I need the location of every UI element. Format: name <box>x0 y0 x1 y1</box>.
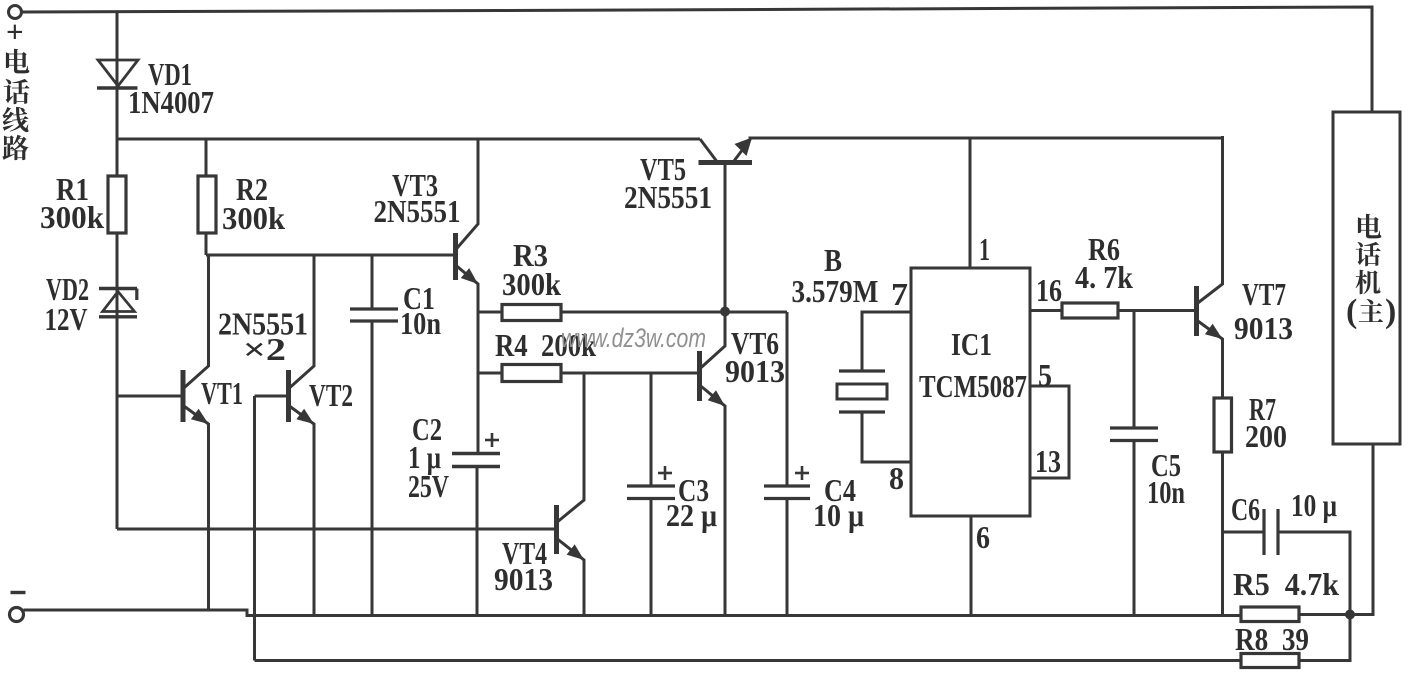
wire bottom rail <box>24 610 1242 616</box>
svg-text:9013: 9013 <box>494 561 553 597</box>
svg-text:300k: 300k <box>222 200 285 236</box>
svg-text:2N5551: 2N5551 <box>374 193 461 229</box>
wire R2 bottom <box>205 233 208 255</box>
capacitor C4 <box>764 484 810 487</box>
wire C4 bottom <box>786 499 789 616</box>
label 路 <box>2 135 28 160</box>
transistor VT5 emitter arrow <box>735 138 753 157</box>
svg-text:1N4007: 1N4007 <box>128 84 214 120</box>
transistor VT2 emitter <box>289 405 315 615</box>
capacitor C3 <box>627 484 675 487</box>
svg-text:12V: 12V <box>45 301 88 337</box>
svg-text:6: 6 <box>976 519 990 555</box>
wire crystal top <box>862 312 911 371</box>
svg-text:22 μ: 22 μ <box>666 497 717 533</box>
svg-text:13: 13 <box>1035 443 1061 479</box>
transistor VT6 bar <box>697 351 702 401</box>
transistor VT7 bar <box>1194 286 1199 336</box>
resistor R3 <box>502 305 561 321</box>
wire R8 rail <box>255 659 1242 662</box>
transistor VT4 emitter arrow <box>567 544 584 560</box>
transistor VT1 bar <box>181 370 186 422</box>
transistor VT5 emitter <box>734 139 751 161</box>
wire R6 right <box>1118 309 1195 312</box>
transistor VT1 collector <box>183 255 209 389</box>
ic U1 IC1 box <box>911 268 1030 516</box>
svg-text:R5 4.7k: R5 4.7k <box>1233 566 1339 602</box>
wire C1 top <box>371 255 374 309</box>
terminal + (top-left) <box>9 6 22 19</box>
wire C3 top <box>650 372 653 486</box>
wire pin 1 <box>969 138 972 268</box>
wire node bus y255 <box>206 254 454 257</box>
zener diode VD2 <box>99 287 137 290</box>
label 话 <box>4 79 30 104</box>
transistor VT3 collector <box>456 139 479 250</box>
terminal - (bottom-left) <box>10 608 24 622</box>
transistor VT5 bar <box>699 160 753 165</box>
svg-text:(: ( <box>1346 293 1357 330</box>
resistor R8 <box>1241 654 1299 668</box>
wire C6 left <box>1223 531 1265 534</box>
wire C1 bottom <box>371 321 374 615</box>
node junction dot B <box>1345 610 1355 620</box>
svg-text:C6: C6 <box>1231 491 1260 527</box>
node junction dot A <box>720 307 730 317</box>
svg-text:1: 1 <box>979 231 990 267</box>
svg-text:4. 7k: 4. 7k <box>1075 259 1133 295</box>
wire R1 to VD2 <box>116 233 119 529</box>
wire VT2 base down to R8 rail <box>253 396 256 661</box>
wire R2 top <box>205 139 208 176</box>
wire junction to phone box <box>1350 444 1373 615</box>
wire C6 right <box>1278 532 1350 615</box>
svg-text:VT2: VT2 <box>309 377 353 413</box>
wire R4 right <box>561 372 698 375</box>
svg-text:): ) <box>1385 293 1396 330</box>
transistor VT3 bar <box>453 233 458 280</box>
transistor VT3 emitter arrow <box>461 268 478 284</box>
wire C3 bottom <box>650 499 653 616</box>
svg-text:300k: 300k <box>502 266 561 302</box>
svg-text:9013: 9013 <box>1234 310 1293 346</box>
wire base bus to VT4 <box>117 528 555 531</box>
wire C2 bottom <box>476 467 479 616</box>
wire R1 top <box>116 139 119 176</box>
svg-text:8: 8 <box>889 460 904 496</box>
svg-text:IC1: IC1 <box>951 326 992 362</box>
svg-text:16: 16 <box>1036 272 1062 308</box>
svg-text:VT7: VT7 <box>1242 276 1286 312</box>
wire crystal bottom <box>862 412 911 462</box>
wire VT3 emitter chain down <box>477 284 480 455</box>
label 线 <box>3 107 29 132</box>
svg-text:25V: 25V <box>408 468 449 504</box>
transistor VT4 emitter <box>557 538 585 615</box>
crystal B plates <box>839 369 885 372</box>
label 电 (telephone-line) <box>6 49 29 74</box>
capacitor C2 <box>452 452 500 455</box>
wire R3 left <box>478 311 502 314</box>
resistor R5 <box>1241 607 1299 622</box>
transistor VT1 emitter arrow <box>191 409 209 424</box>
svg-text:3.579M: 3.579M <box>792 273 879 309</box>
resistor R1 <box>108 176 126 233</box>
wire R7 bottom <box>1221 452 1224 615</box>
capacitor C1 <box>350 307 398 310</box>
transistor VT6 collector <box>700 311 726 369</box>
resistor R6 <box>1062 303 1118 318</box>
wire R8 right <box>1299 615 1350 661</box>
label 机 (phone-box) <box>1356 270 1381 294</box>
transistor VT3 emitter <box>456 265 479 312</box>
wire C5 bottom <box>1133 441 1136 616</box>
wire pin 5-13 loop <box>1030 386 1069 478</box>
wire R5 right <box>1299 613 1350 616</box>
wire VD1 top <box>116 12 119 140</box>
label - polarity <box>11 591 26 594</box>
wire rail2 left segment <box>117 138 700 141</box>
diode VD1 <box>98 60 138 86</box>
wire rail2 right segment <box>749 137 1224 140</box>
label 话 (phone-box) <box>1356 242 1381 266</box>
transistor VT4 bar <box>554 505 559 554</box>
capacitor C5 <box>1110 426 1158 429</box>
svg-text:10n: 10n <box>400 305 441 341</box>
transistor VT2 bar <box>286 370 291 422</box>
resistor R7 <box>1214 398 1232 452</box>
transistor VT4 collector <box>557 372 585 523</box>
svg-text:R8 39: R8 39 <box>1235 621 1309 657</box>
svg-text:2N5551: 2N5551 <box>624 179 712 215</box>
resistor R4 <box>502 365 561 382</box>
transistor VT7 emitter arrow <box>1205 324 1223 339</box>
svg-text:TCM5087: TCM5087 <box>919 368 1027 404</box>
svg-text:+: + <box>6 14 24 49</box>
svg-text:www.dz3w.com: www.dz3w.com <box>561 323 706 353</box>
wire C4 top <box>786 312 789 486</box>
transistor VT1 emitter <box>183 405 209 611</box>
transistor VT7 emitter <box>1197 320 1223 398</box>
transistor VT2 emitter arrow <box>296 409 314 424</box>
wire pin 16 <box>1030 309 1062 312</box>
transistor VT2 collector <box>289 255 315 389</box>
capacitor C6 <box>1262 509 1265 555</box>
wire C5 top <box>1133 311 1136 429</box>
C2 plus sign <box>485 439 499 442</box>
svg-text:10 μ: 10 μ <box>813 497 864 533</box>
C3 plus sign <box>658 472 672 475</box>
label 电 (phone-box) <box>1358 214 1381 239</box>
svg-text:300k: 300k <box>40 199 104 235</box>
svg-text:×2: ×2 <box>243 331 286 367</box>
C4 plus sign <box>795 472 809 475</box>
transistor VT5 collector <box>700 139 717 161</box>
phone box 电话机(主) <box>1333 112 1400 444</box>
transistor VT7 collector <box>1197 136 1223 304</box>
resistor R2 <box>198 176 216 233</box>
svg-text:10n: 10n <box>1147 474 1185 510</box>
crystal B body <box>837 384 887 399</box>
transistor VT6 emitter <box>700 385 726 615</box>
svg-text:200: 200 <box>1245 418 1287 454</box>
wire VT1 base <box>117 395 181 398</box>
wire pin 6 <box>970 516 973 615</box>
svg-text:7: 7 <box>891 276 908 312</box>
wire VT2 base <box>255 395 287 398</box>
transistor VT6 emitter arrow <box>708 390 725 406</box>
svg-text:5: 5 <box>1038 357 1052 393</box>
wire VT5 base down <box>724 163 727 312</box>
svg-text:VT1: VT1 <box>201 375 243 411</box>
svg-text:9013: 9013 <box>725 353 785 389</box>
wire R4 left <box>478 372 502 375</box>
wire top rail <box>21 7 1372 112</box>
wire R3 right <box>561 311 787 314</box>
svg-text:10 μ: 10 μ <box>1291 487 1337 523</box>
